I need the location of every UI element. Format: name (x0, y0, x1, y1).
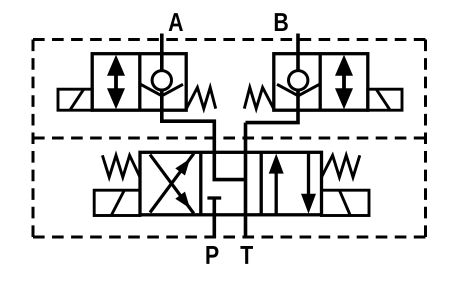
parallel arrows, right position box (275, 170, 278, 214)
check valve B-side: 2/2 valve body boxes (274, 54, 368, 110)
position box divider left (199, 152, 202, 215)
dashed divider between check-valve sandwich and directional valve (33, 137, 426, 140)
check valve B-side: ball (289, 71, 308, 90)
spring A-side check valve (186, 87, 215, 108)
check valve A-side: 2/2 valve body boxes (92, 54, 186, 110)
port label P (206, 246, 218, 264)
port label A (169, 13, 183, 31)
enclosure dashed border left (32, 40, 35, 238)
check valve B-side: seat (277, 84, 319, 96)
solenoid a, directional valve left (94, 190, 140, 215)
crossover arrows, left position box (150, 154, 194, 213)
port label B (275, 13, 288, 31)
solenoid b, directional valve right (322, 190, 370, 215)
solenoid A-side check valve (58, 89, 92, 110)
solenoid B-side check valve (368, 89, 402, 110)
check valve A-side: ball (152, 71, 171, 90)
spring B-side check valve (244, 87, 273, 108)
wire: port B line down through check valve, jog left (246, 34, 299, 123)
check valve A-side: seat (141, 84, 183, 96)
spring, directional valve right (322, 155, 360, 177)
enclosure dashed border bottom (33, 236, 426, 239)
wire: port P stem (213, 198, 217, 238)
spring, directional valve left (102, 155, 140, 177)
shift double-arrow A-side (114, 73, 118, 92)
wire: T line straight down through valve to tank port (244, 123, 248, 238)
wire: centre-position A to T connection (214, 152, 245, 179)
wire: port A line down through check valve, jog right into valve port (162, 34, 215, 155)
enclosure dashed border top (33, 38, 426, 41)
enclosure dashed border right (424, 40, 427, 238)
blocked port P symbol (crossbar) (207, 196, 221, 199)
port label T (240, 246, 253, 264)
position box divider right (260, 152, 263, 215)
directional valve body (3 position boxes) (140, 152, 322, 215)
shift double-arrow B-side (342, 73, 346, 92)
